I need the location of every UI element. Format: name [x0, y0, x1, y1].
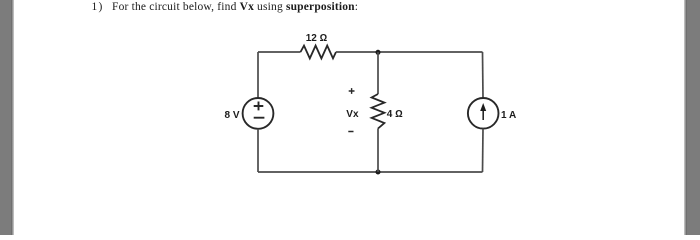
- svg-text:8 V: 8 V: [224, 110, 239, 121]
- svg-text:1 A: 1 A: [501, 110, 516, 121]
- current source I1 circle: [468, 98, 499, 129]
- wire top-middle segment: [336, 51, 483, 53]
- label plus of Vx: [349, 88, 355, 94]
- wire left upper: [257, 52, 259, 98]
- problem title text: [92, 2, 104, 14]
- node A junction dot top: [376, 50, 381, 55]
- voltage source plus sign: [254, 102, 264, 111]
- wire middle lower: [377, 129, 379, 173]
- wire right lower: [482, 129, 485, 172]
- wire top-left segment: [258, 51, 301, 53]
- left viewer gutter bar: [0, 0, 11, 235]
- resistor R1 12 ohm: [301, 46, 337, 59]
- voltage source V1 circle: [243, 98, 274, 129]
- wire right upper: [482, 52, 485, 98]
- right viewer gutter bar: [684, 0, 687, 235]
- svg-text:Vx: Vx: [346, 109, 359, 120]
- label minus of Vx: [348, 131, 353, 133]
- voltage source minus sign: [254, 117, 265, 119]
- node B junction dot bottom: [376, 170, 381, 175]
- svg-text:4 Ω: 4 Ω: [387, 109, 403, 120]
- current source arrow shaft: [482, 110, 484, 121]
- current source arrow head: [480, 103, 486, 111]
- wire left lower: [257, 129, 259, 172]
- wire bottom segment: [258, 171, 483, 173]
- svg-text:12 Ω: 12 Ω: [306, 33, 328, 44]
- resistor R2 4 ohm: [372, 94, 385, 129]
- wire middle upper: [377, 52, 379, 94]
